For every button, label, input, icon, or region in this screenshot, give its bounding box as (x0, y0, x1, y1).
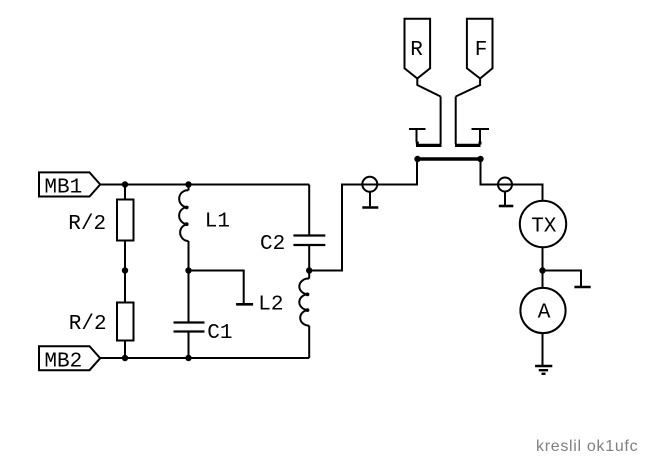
svg-text:L1: L1 (205, 211, 230, 234)
svg-text:A: A (538, 301, 551, 324)
svg-text:C2: C2 (260, 233, 285, 256)
svg-text:R/2: R/2 (69, 313, 107, 336)
svg-text:L2: L2 (258, 294, 283, 317)
svg-text:MB2: MB2 (44, 350, 82, 373)
svg-text:MB1: MB1 (44, 176, 82, 199)
svg-text:kreslil ok1ufc: kreslil ok1ufc (536, 438, 638, 455)
svg-text:R: R (410, 39, 423, 62)
svg-text:TX: TX (531, 215, 557, 238)
svg-text:R/2: R/2 (68, 213, 106, 236)
svg-text:C1: C1 (207, 322, 232, 345)
svg-text:F: F (475, 39, 488, 62)
